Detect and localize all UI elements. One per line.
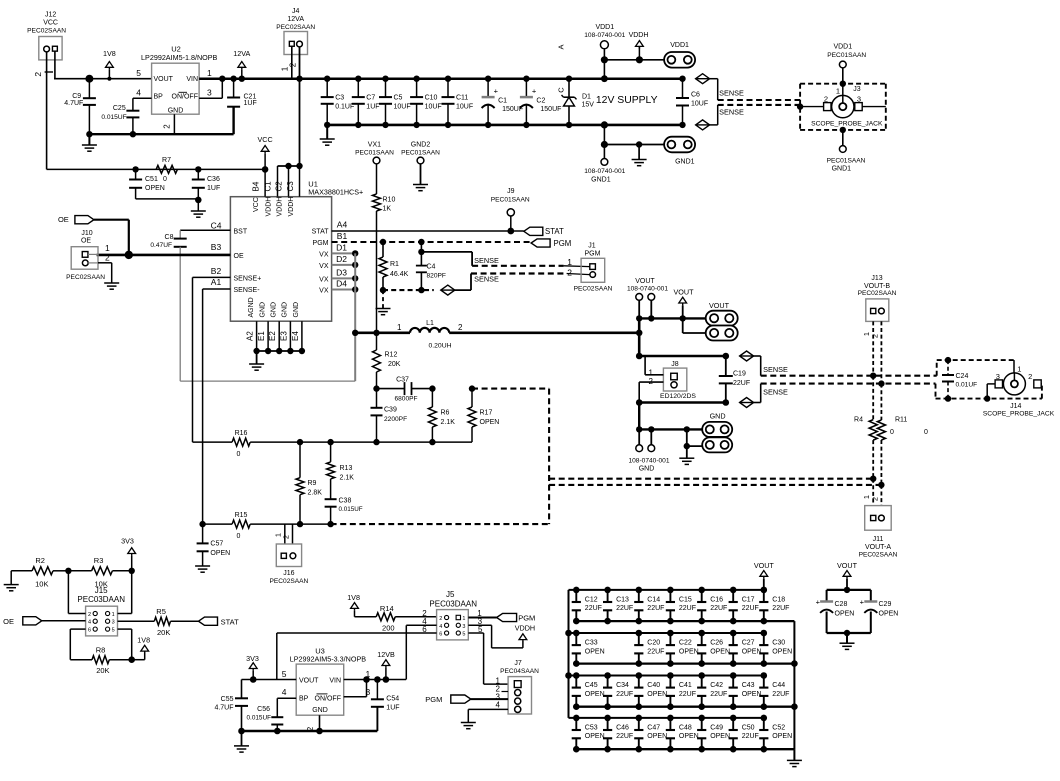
svg-text:PEC01SAAN: PEC01SAAN xyxy=(401,150,440,157)
capacitor C43 OPEN xyxy=(729,672,762,710)
svg-text:15V: 15V xyxy=(582,102,595,109)
svg-text:VOUT: VOUT xyxy=(635,278,655,285)
svg-text:0: 0 xyxy=(236,451,240,458)
svg-text:AGND: AGND xyxy=(248,297,255,317)
resistor R12 20K xyxy=(373,333,401,389)
wire J12 pin2 to VCC rail xyxy=(33,52,53,169)
svg-text:PGM: PGM xyxy=(518,614,535,623)
net label C (rotated) xyxy=(557,87,566,93)
svg-text:3: 3 xyxy=(996,372,1000,381)
svg-text:5: 5 xyxy=(282,669,287,679)
wire L1 to VOUT node xyxy=(449,331,639,334)
svg-text:GND: GND xyxy=(168,108,184,115)
svg-text:C16: C16 xyxy=(710,597,723,604)
wire SENSE bracket (C4 side) xyxy=(421,252,472,290)
capacitor C15 22UF xyxy=(666,587,696,625)
svg-text:0.015UF: 0.015UF xyxy=(101,114,126,121)
svg-text:1V8: 1V8 xyxy=(103,49,116,58)
capacitor C37 6800PF xyxy=(373,377,432,403)
svg-text:C36: C36 xyxy=(207,176,220,183)
testpoint VDD1 108-0740-001 (top) xyxy=(584,24,625,82)
wire J5 pin6 to 3V3 xyxy=(277,633,437,680)
svg-text:SCOPE_PROBE_JACK: SCOPE_PROBE_JACK xyxy=(811,120,883,127)
svg-text:0: 0 xyxy=(163,176,167,183)
svg-text:OPEN: OPEN xyxy=(835,611,855,618)
svg-text:PEC02SAAN: PEC02SAAN xyxy=(66,274,105,281)
svg-text:VX: VX xyxy=(319,263,329,270)
power flag 12VB xyxy=(377,650,395,680)
svg-text:C22: C22 xyxy=(679,640,692,647)
svg-text:22UF: 22UF xyxy=(772,691,789,698)
svg-text:SENSE: SENSE xyxy=(763,365,788,374)
svg-text:C49: C49 xyxy=(710,725,723,732)
svg-text:ED120/2DS: ED120/2DS xyxy=(660,393,696,400)
capacitor C57 OPEN xyxy=(197,524,231,566)
svg-text:SENSE: SENSE xyxy=(474,256,499,265)
capacitor C5 10UF xyxy=(379,76,411,129)
svg-text:R11: R11 xyxy=(895,417,907,424)
svg-text:J4: J4 xyxy=(292,8,300,15)
wire cap bank left bus xyxy=(565,590,572,718)
svg-text:4: 4 xyxy=(282,687,287,697)
capacitor C20 22UF xyxy=(634,630,664,667)
wire VX node to L1 xyxy=(352,330,410,336)
label OE flag (J15) xyxy=(3,617,42,626)
svg-text:VOUT-B: VOUT-B xyxy=(864,283,890,290)
wire dashed SENSE upper to J3 xyxy=(718,99,800,101)
svg-text:C1: C1 xyxy=(498,97,507,104)
svg-text:OE: OE xyxy=(81,237,91,244)
svg-text:J9: J9 xyxy=(507,188,515,195)
svg-text:C1: C1 xyxy=(264,181,273,192)
ground (C3) xyxy=(320,125,335,145)
capacitor C33 OPEN xyxy=(572,630,605,667)
svg-text:0.01UF: 0.01UF xyxy=(956,381,978,388)
resistor R1 46.4K xyxy=(379,239,409,290)
svg-text:PGM: PGM xyxy=(313,240,329,247)
svg-text:2: 2 xyxy=(282,535,291,539)
wire U3 VIN line xyxy=(344,625,406,683)
connector GND (oval pair) xyxy=(687,422,732,453)
svg-text:5: 5 xyxy=(462,632,465,638)
svg-text:C28: C28 xyxy=(835,601,848,608)
svg-text:0.015UF: 0.015UF xyxy=(339,506,363,513)
svg-text:4.7UF: 4.7UF xyxy=(64,100,83,107)
svg-text:46.4K: 46.4K xyxy=(390,271,409,278)
label 0 (floating) xyxy=(924,429,928,436)
off-page diamond (VOUT sense+) xyxy=(740,351,754,361)
svg-text:C26: C26 xyxy=(710,640,723,647)
svg-text:VCC: VCC xyxy=(258,135,273,144)
flag PGM (J7) xyxy=(425,695,470,704)
svg-text:C5: C5 xyxy=(394,94,403,101)
capacitor C40 OPEN xyxy=(634,672,667,710)
wire U2 BP xyxy=(133,97,152,99)
capacitor C45 OPEN xyxy=(572,672,605,710)
off-page diamond (12V+ sense) xyxy=(696,74,710,84)
svg-text:R4: R4 xyxy=(854,417,863,424)
svg-text:1: 1 xyxy=(462,616,465,622)
svg-text:R9: R9 xyxy=(308,480,317,487)
capacitor C26 OPEN xyxy=(697,630,730,667)
svg-text:4: 4 xyxy=(439,624,442,630)
svg-text:22UF: 22UF xyxy=(733,380,750,387)
svg-text:BP: BP xyxy=(299,695,309,702)
wire J5 pin1 to PGM flag xyxy=(468,617,496,619)
svg-text:C19: C19 xyxy=(733,371,746,378)
resistor R2 10K xyxy=(11,556,68,589)
svg-text:820PF: 820PF xyxy=(427,272,446,279)
connector J11 VOUT-A PEC02SAAN xyxy=(859,479,898,559)
connector J1 PGM PEC02SAAN xyxy=(567,243,612,293)
svg-text:C43: C43 xyxy=(742,682,755,689)
svg-text:J7: J7 xyxy=(514,660,522,667)
wire dashed bus to R11 bottom xyxy=(549,484,881,486)
zener diode D1 15V xyxy=(562,76,595,129)
capacitor C42 22UF xyxy=(697,672,727,710)
svg-text:10UF: 10UF xyxy=(456,103,473,110)
wire GND1 row xyxy=(604,144,666,146)
svg-text:GND: GND xyxy=(639,466,655,473)
svg-text:SENSE: SENSE xyxy=(719,108,744,117)
svg-text:22UF: 22UF xyxy=(710,691,727,698)
svg-text:1V8: 1V8 xyxy=(137,635,150,644)
wire cap row rail y=663.6 xyxy=(576,662,794,664)
svg-text:A2: A2 xyxy=(246,331,255,341)
svg-text:LP2992AIM5-3.3/NOPB: LP2992AIM5-3.3/NOPB xyxy=(290,655,367,664)
label GND (ovals) xyxy=(710,412,726,421)
scope probe jack J3 xyxy=(797,81,886,134)
capacitor C17 22UF xyxy=(729,587,759,625)
connector J12 VCC PEC02SAAN xyxy=(27,12,66,60)
svg-text:22UF: 22UF xyxy=(616,733,633,740)
svg-text:VOUT-A: VOUT-A xyxy=(865,544,891,551)
capacitor C47 OPEN xyxy=(634,715,667,753)
svg-text:C55: C55 xyxy=(221,696,234,703)
svg-text:GND1: GND1 xyxy=(591,177,611,184)
wire SENSE+ net xyxy=(193,266,231,442)
capacitor C49 OPEN xyxy=(697,715,730,753)
svg-text:OPEN: OPEN xyxy=(585,691,605,698)
svg-text:C15: C15 xyxy=(679,597,692,604)
wire dashed SENSE to J1 pin1 xyxy=(472,265,590,268)
svg-text:+: + xyxy=(816,598,821,607)
ground (C28/C29) xyxy=(840,633,855,649)
svg-text:PEC02SAAN: PEC02SAAN xyxy=(269,578,308,585)
svg-text:VCC: VCC xyxy=(43,20,58,27)
svg-text:C47: C47 xyxy=(647,725,660,732)
flag PGM (J5) xyxy=(497,613,536,622)
svg-text:C2: C2 xyxy=(275,181,284,192)
flag STAT (J15) xyxy=(199,617,240,626)
svg-text:OE: OE xyxy=(234,253,244,260)
svg-text:2: 2 xyxy=(824,95,828,104)
capacitor C16 22UF xyxy=(697,587,727,625)
wire C8 to VX node (grey) xyxy=(180,247,355,381)
U1 VX pin stubs (grey) xyxy=(332,243,359,293)
svg-text:C51: C51 xyxy=(145,176,158,183)
resistor R9 2.8K xyxy=(296,439,322,527)
svg-text:C27: C27 xyxy=(742,640,755,647)
svg-text:22UF: 22UF xyxy=(616,605,633,612)
svg-text:2: 2 xyxy=(871,334,880,338)
svg-text:OPEN: OPEN xyxy=(480,419,500,426)
resistor R5 20K xyxy=(118,607,199,637)
svg-text:J11: J11 xyxy=(873,536,884,543)
ground (J7) xyxy=(461,723,476,729)
svg-text:4: 4 xyxy=(496,701,501,710)
svg-text:C41: C41 xyxy=(679,682,692,689)
svg-text:12VA: 12VA xyxy=(287,16,304,23)
svg-text:PEC02SAAN: PEC02SAAN xyxy=(859,552,898,559)
svg-text:PEC02SAAN: PEC02SAAN xyxy=(858,290,897,297)
svg-text:1: 1 xyxy=(397,323,402,332)
svg-text:0.1UF: 0.1UF xyxy=(335,103,354,110)
wire U2 GND pin xyxy=(173,114,175,134)
testpoint VDD1 PEC01SAAN (J3) xyxy=(827,44,866,84)
label SENSE (lower, to J1) xyxy=(474,274,499,283)
svg-text:PGM: PGM xyxy=(585,251,601,258)
wire J10 pin2 to ground xyxy=(98,263,112,283)
svg-text:VOUT: VOUT xyxy=(709,301,730,310)
svg-text:J15: J15 xyxy=(95,586,108,595)
capacitor C1 150UF (polarized) xyxy=(482,76,524,129)
svg-text:OE: OE xyxy=(3,617,14,626)
svg-text:J5: J5 xyxy=(446,590,455,599)
svg-text:R13: R13 xyxy=(340,465,353,472)
regulator U3 LP2992AIM5-3.3/NOPB xyxy=(282,647,371,732)
capacitor C38 0.015UF xyxy=(325,497,363,527)
svg-text:VDDH: VDDH xyxy=(515,623,535,632)
svg-text:C42: C42 xyxy=(710,682,723,689)
svg-text:B3: B3 xyxy=(211,242,222,252)
svg-text:OPEN: OPEN xyxy=(585,648,605,655)
wire VOUT main vertical xyxy=(636,318,643,359)
svg-text:A: A xyxy=(557,44,566,49)
svg-text:OPEN: OPEN xyxy=(710,733,730,740)
wire VOUT sense row xyxy=(639,353,729,360)
svg-text:C3: C3 xyxy=(335,94,344,101)
capacitor C11 10UF xyxy=(442,76,474,129)
svg-text:VOUT: VOUT xyxy=(674,288,695,297)
wire 1V8 rail xyxy=(54,78,152,80)
svg-text:A1: A1 xyxy=(211,277,222,287)
svg-text:C6: C6 xyxy=(691,92,700,99)
svg-text:R10: R10 xyxy=(383,197,396,204)
power flag 3V3 (J15) xyxy=(121,537,135,575)
wire J5 pin3 to VDDH xyxy=(468,625,523,648)
wire J5 pin5 to J7 pin1 xyxy=(468,633,508,684)
label SENSE (lower, to J3) xyxy=(719,108,744,117)
U1 bottom GND pin stubs xyxy=(246,321,302,351)
regulator U2 LP2992AIM5-1.8/NOPB xyxy=(136,45,217,129)
off-page diamond (SENSE- at C4) xyxy=(441,285,455,295)
svg-text:22UF: 22UF xyxy=(742,733,759,740)
svg-text:C40: C40 xyxy=(647,682,660,689)
header J7 PEC04SAAN xyxy=(496,660,540,714)
svg-text:J1: J1 xyxy=(588,243,596,250)
svg-text:J10: J10 xyxy=(81,230,92,237)
svg-text:OPEN: OPEN xyxy=(585,733,605,740)
capacitor C55 4.7UF xyxy=(214,680,248,732)
resistor R10 1K xyxy=(373,164,396,333)
svg-text:2.1K: 2.1K xyxy=(340,475,355,482)
wire J4 pin1 xyxy=(280,46,292,78)
svg-text:VX: VX xyxy=(319,288,329,295)
capacitor C9 4.7UF xyxy=(64,75,96,135)
svg-text:SENSE: SENSE xyxy=(474,274,499,283)
svg-text:GND2: GND2 xyxy=(411,141,431,148)
svg-text:1UF: 1UF xyxy=(207,185,220,192)
capacitor C52 OPEN xyxy=(759,715,792,753)
off-page diamond (VOUT sense-) xyxy=(740,398,754,408)
power flag VDDH (top) xyxy=(629,32,649,64)
svg-text:C48: C48 xyxy=(679,725,692,732)
svg-text:10UF: 10UF xyxy=(394,103,411,110)
capacitor C54 1UF xyxy=(371,680,400,732)
svg-text:150UF: 150UF xyxy=(540,106,561,113)
wire cap row rail y=633.0 xyxy=(569,632,764,634)
resistor R16 0 xyxy=(193,430,473,458)
IC U1 MAX38801HCS+ xyxy=(230,180,363,322)
wire cap bank right bus xyxy=(791,621,798,749)
svg-text:SCOPE_PROBE_JACK: SCOPE_PROBE_JACK xyxy=(983,410,1055,417)
power flag VDDH (J5) xyxy=(515,623,535,641)
testpoint GND1 PEC01SAAN (J3) xyxy=(827,130,866,173)
svg-text:1: 1 xyxy=(207,68,212,78)
svg-text:J14: J14 xyxy=(1010,403,1021,410)
svg-text:GND: GND xyxy=(710,412,726,421)
connector VOUT (oval pair) xyxy=(683,301,738,341)
svg-text:PEC01SAAN: PEC01SAAN xyxy=(827,158,866,165)
capacitor C44 22UF xyxy=(759,672,789,710)
svg-text:C3: C3 xyxy=(286,181,295,192)
svg-text:C52: C52 xyxy=(772,725,785,732)
testpoint VOUT 108-0740-001 xyxy=(627,278,668,318)
svg-text:D1: D1 xyxy=(582,94,591,101)
wire J15 pin6 loop xyxy=(70,629,85,660)
svg-text:OPEN: OPEN xyxy=(647,733,667,740)
svg-text:STAT: STAT xyxy=(221,617,239,626)
wire U3 GND pin xyxy=(316,715,323,734)
power flag 1V8 (R14) xyxy=(347,593,360,617)
svg-text:VX1: VX1 xyxy=(368,141,381,148)
svg-text:108-0740-001: 108-0740-001 xyxy=(627,286,668,293)
capacitor C46 22UF xyxy=(603,715,633,753)
wire cap row rail y=589.9 xyxy=(569,589,764,591)
svg-text:R14: R14 xyxy=(380,604,394,613)
wire dashed bus to R4 bottom xyxy=(549,478,873,480)
wire cap row rail y=749.2 xyxy=(576,748,794,750)
capacitor C6 10UF xyxy=(676,76,708,129)
svg-text:VDD1: VDD1 xyxy=(670,42,689,49)
svg-text:VDD1: VDD1 xyxy=(833,44,852,51)
svg-text:BST: BST xyxy=(234,228,248,235)
svg-text:2.1K: 2.1K xyxy=(441,419,456,426)
svg-text:4.7UF: 4.7UF xyxy=(214,705,233,712)
resistor R17 OPEN xyxy=(468,385,499,442)
svg-text:C56: C56 xyxy=(257,706,270,713)
ground (GND1 row) xyxy=(632,141,647,165)
svg-text:OPEN: OPEN xyxy=(679,733,699,740)
wire dashed feedback to right bus xyxy=(472,388,549,390)
svg-text:GND: GND xyxy=(282,302,289,318)
svg-text:VOUT: VOUT xyxy=(754,561,775,570)
svg-text:108-0740-001: 108-0740-001 xyxy=(584,32,625,39)
svg-text:0: 0 xyxy=(890,429,894,436)
svg-text:PEC04SAAN: PEC04SAAN xyxy=(500,668,539,675)
svg-text:2: 2 xyxy=(163,124,172,129)
svg-text:2: 2 xyxy=(105,252,110,262)
svg-text:22UF: 22UF xyxy=(679,605,696,612)
svg-text:PEC03DAAN: PEC03DAAN xyxy=(77,595,125,604)
wire U2 ON/OFF to 12VA xyxy=(199,79,222,99)
wire VDDH bracket above U1 xyxy=(278,163,303,169)
svg-text:0.20UH: 0.20UH xyxy=(428,342,451,349)
svg-text:2: 2 xyxy=(33,72,43,77)
svg-text:L1: L1 xyxy=(426,320,434,327)
svg-text:VX: VX xyxy=(319,251,329,258)
header J5 PEC03DAAN xyxy=(422,590,483,640)
svg-text:2: 2 xyxy=(1028,372,1032,381)
svg-text:GND: GND xyxy=(293,302,300,318)
svg-text:E2: E2 xyxy=(268,331,277,341)
svg-text:200: 200 xyxy=(382,624,395,633)
wire 12V top bus xyxy=(199,77,682,80)
wire J7 pin4 to ground xyxy=(468,709,508,722)
capacitor C50 22UF xyxy=(729,715,759,753)
svg-text:2: 2 xyxy=(871,497,880,501)
svg-text:SENSE-: SENSE- xyxy=(234,287,261,294)
svg-text:12VA: 12VA xyxy=(233,49,250,58)
svg-text:22UF: 22UF xyxy=(710,605,727,612)
svg-text:2: 2 xyxy=(567,268,572,278)
svg-text:C37: C37 xyxy=(396,377,409,384)
svg-text:R5: R5 xyxy=(156,607,166,616)
resistor R4 0 xyxy=(854,376,877,482)
svg-text:C8: C8 xyxy=(165,234,174,241)
wire OE net xyxy=(97,242,231,255)
svg-text:R17: R17 xyxy=(480,410,493,417)
svg-text:22UF: 22UF xyxy=(772,605,789,612)
svg-text:PEC03DAAN: PEC03DAAN xyxy=(429,599,477,608)
wire cap row rail y=621.1 xyxy=(576,620,794,622)
capacitor C34 22UF xyxy=(603,672,633,710)
wire dashed SENSE lower to J3 xyxy=(718,104,800,106)
svg-text:E1: E1 xyxy=(257,331,266,341)
wire STAT net xyxy=(332,220,524,232)
wire dashed J14 bottom rail xyxy=(936,384,1042,402)
wire dashed SENSE upper (to C24) xyxy=(761,373,937,379)
svg-text:STAT: STAT xyxy=(312,228,330,235)
net label A (rotated) xyxy=(557,44,566,49)
svg-text:OPEN: OPEN xyxy=(742,691,762,698)
power flag VOUT (mid) xyxy=(674,288,695,319)
svg-text:PGM: PGM xyxy=(554,239,572,248)
svg-text:10K: 10K xyxy=(35,580,48,589)
capacitor C2 150UF (polarized) xyxy=(520,76,562,129)
svg-text:D2: D2 xyxy=(336,254,347,264)
wire J8 bottom row xyxy=(636,399,726,406)
ground (cap bank) xyxy=(787,749,802,766)
connector VDD1 (oval) xyxy=(664,42,695,68)
svg-text:2: 2 xyxy=(458,323,463,332)
capacitor C39 2200PF xyxy=(371,389,408,446)
capacitor C29 OPEN (polarized) xyxy=(860,590,899,633)
svg-text:J8: J8 xyxy=(671,361,679,368)
U1 top pin stubs xyxy=(251,166,299,197)
wire cap row rail y=706.7 xyxy=(576,706,794,708)
